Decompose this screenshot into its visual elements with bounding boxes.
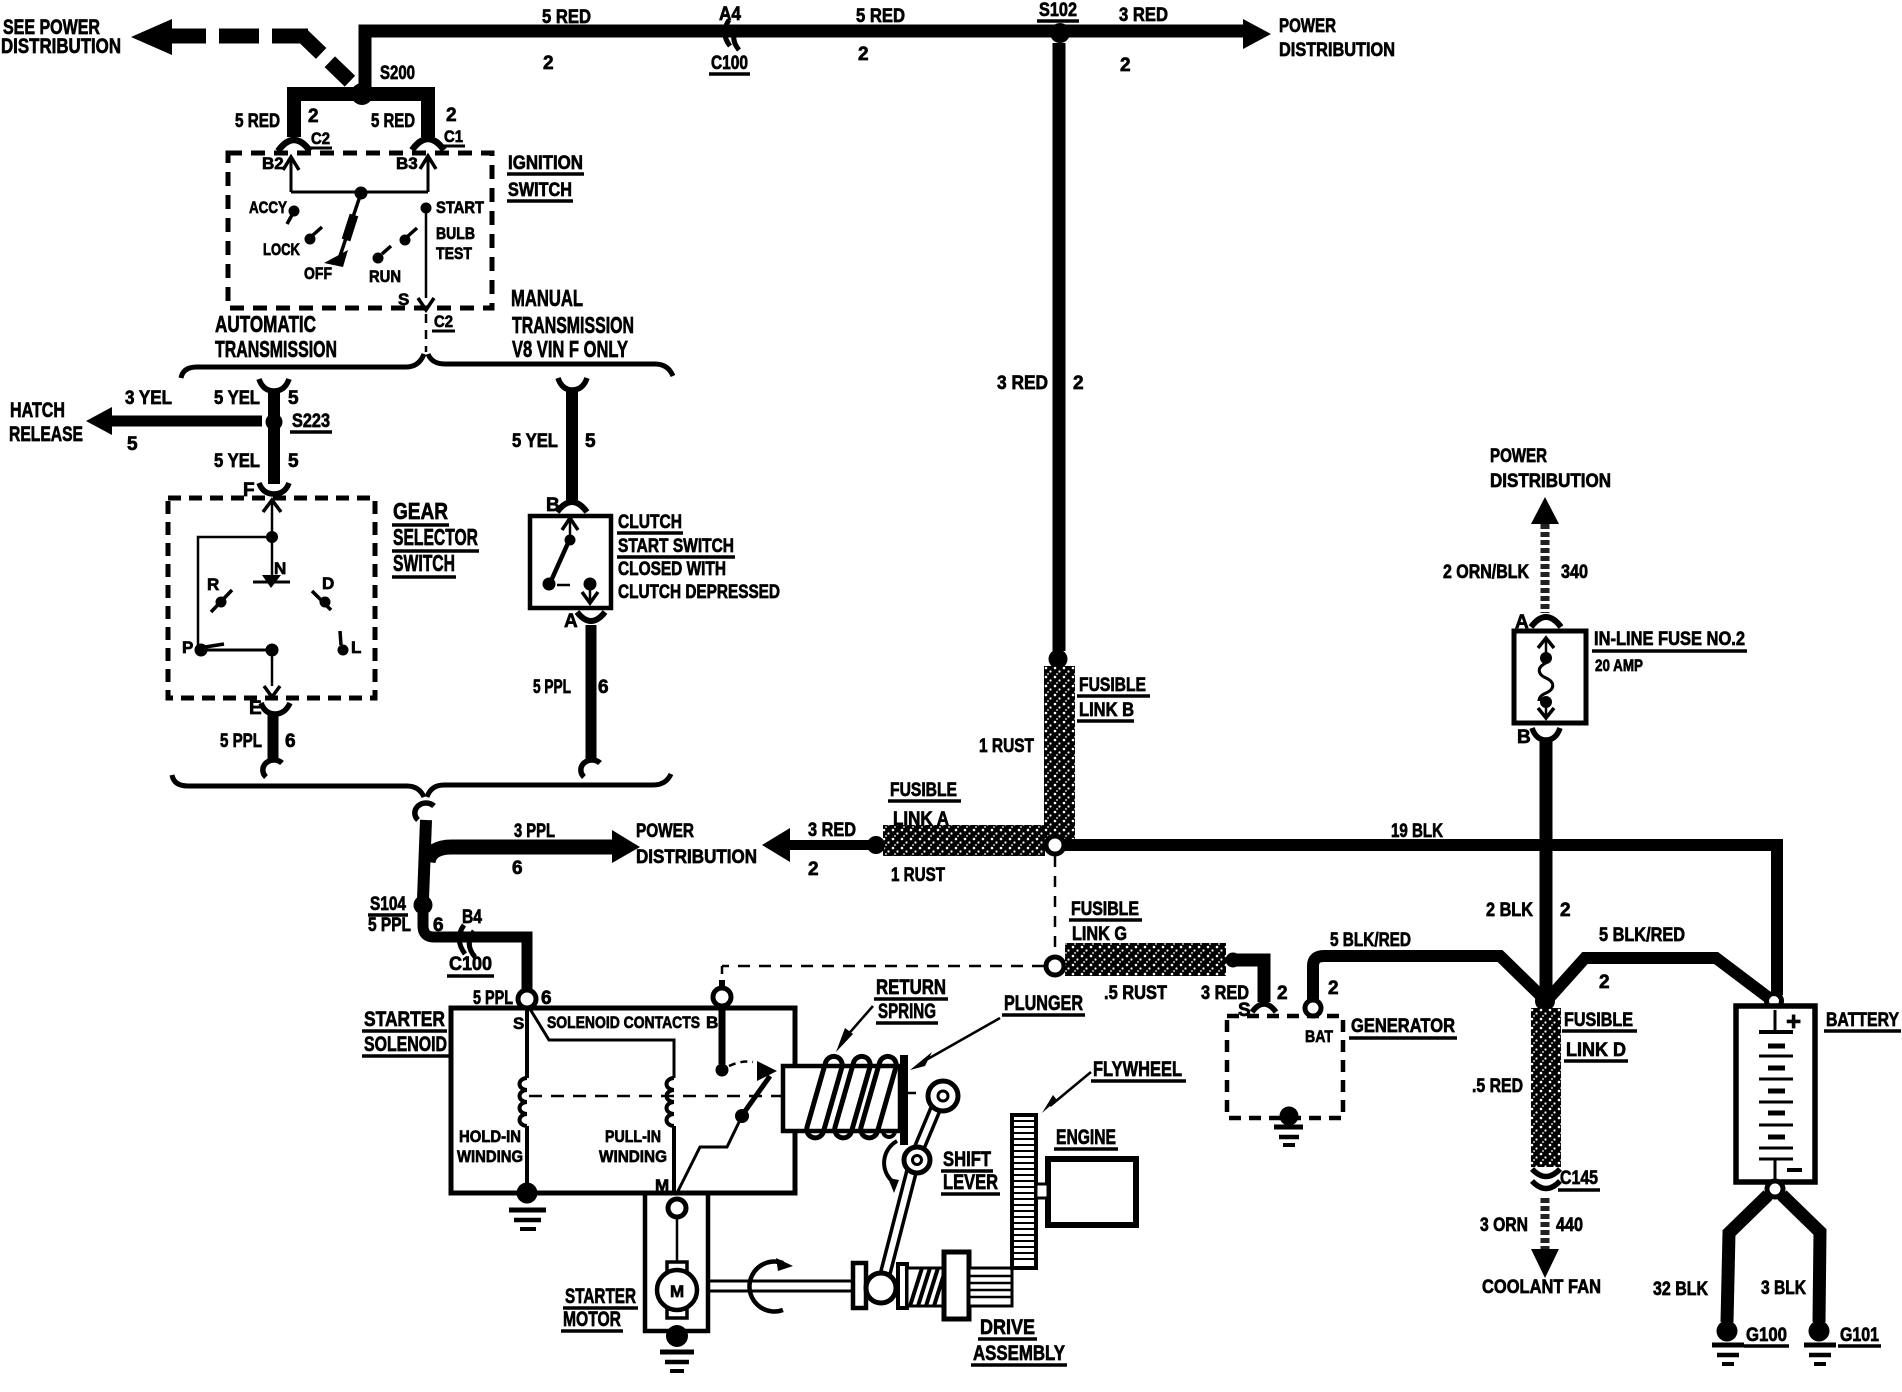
svg-text:POWER: POWER [636, 821, 694, 842]
svg-text:TEST: TEST [436, 244, 473, 263]
svg-text:19 BLK: 19 BLK [1391, 821, 1443, 842]
contact N [253, 559, 290, 588]
wire START to S [425, 208, 428, 298]
split brace left [181, 354, 424, 378]
node link G left (ring) [1046, 957, 1064, 975]
connector curl (A branch end) [581, 760, 600, 777]
plunger body [783, 1066, 900, 1131]
node S102 [1037, 0, 1079, 43]
label HATCH RELEASE [9, 399, 83, 446]
label STARTER SOLENOID [362, 1008, 449, 1056]
label POWER DISTRIBUTION (top right) [1279, 16, 1395, 61]
svg-text:2 BLK: 2 BLK [1486, 900, 1533, 921]
svg-text:TRANSMISSION: TRANSMISSION [512, 312, 634, 338]
svg-text:ACCY: ACCY [249, 198, 288, 217]
label FUSIBLE LINK A [888, 780, 961, 830]
pull-in winding coil [667, 1078, 675, 1126]
label DRIVE ASSEMBLY [971, 1316, 1067, 1365]
svg-text:G100: G100 [1746, 1325, 1787, 1346]
svg-text:1 RUST: 1 RUST [979, 736, 1034, 757]
wire to P leg [198, 537, 272, 649]
label POWER DISTRIBUTION (3 PPL) [636, 821, 757, 868]
svg-text:5: 5 [288, 451, 299, 472]
svg-text:BATTERY: BATTERY [1826, 1010, 1899, 1031]
svg-text:B: B [706, 1013, 718, 1032]
label PULL-IN WINDING [599, 1127, 667, 1166]
connector F bird [243, 480, 289, 501]
node fusible link D top [1535, 991, 1555, 1011]
svg-text:PULL-IN: PULL-IN [605, 1127, 661, 1146]
terminal B (ring) [713, 988, 731, 1006]
svg-text:CLUTCH: CLUTCH [618, 512, 682, 533]
connector A (clutch) [564, 611, 605, 632]
node link G right [1226, 953, 1241, 968]
svg-text:5 RED: 5 RED [856, 6, 905, 27]
terminal M (ring) [668, 1199, 686, 1217]
node clutch pivot [565, 535, 576, 546]
svg-text:B4: B4 [462, 907, 482, 928]
svg-text:RETURN: RETURN [876, 976, 946, 999]
svg-text:.5 RUST: .5 RUST [1104, 983, 1167, 1004]
wire 5 PPL (E drop) [268, 714, 279, 762]
contact LOCK [263, 227, 322, 259]
svg-text:D: D [322, 574, 334, 593]
svg-text:5 RED: 5 RED [542, 7, 591, 28]
svg-text:SOLENOID: SOLENOID [364, 1033, 447, 1056]
svg-text:5 YEL: 5 YEL [214, 451, 260, 472]
svg-text:RELEASE: RELEASE [9, 423, 83, 446]
wire B contact drop [719, 1006, 726, 1064]
svg-text:LINK B: LINK B [1079, 700, 1134, 721]
merge brace left [172, 775, 424, 797]
svg-text:3 YEL: 3 YEL [125, 388, 172, 409]
merge brace right [427, 774, 671, 797]
svg-text:DISTRIBUTION: DISTRIBUTION [1, 35, 121, 58]
svg-text:3 RED: 3 RED [997, 373, 1048, 394]
svg-text:C100: C100 [449, 954, 492, 975]
svg-text:LINK G: LINK G [1072, 924, 1127, 945]
drive collar [898, 1264, 907, 1308]
wire dashed arrow to power distribution (top left) [131, 19, 357, 88]
svg-text:S: S [398, 290, 409, 309]
shift lever pivot [904, 1147, 930, 1173]
terminal S (ring) [518, 990, 536, 1008]
flywheel [1012, 1115, 1036, 1268]
label GEAR SELECTOR SWITCH [392, 498, 479, 577]
wire 2 BLK (fuse B down) [1540, 740, 1553, 994]
svg-text:GENERATOR: GENERATOR [1351, 1016, 1455, 1037]
wire S104 elbow to C100 [423, 905, 527, 991]
engine shaft [1036, 1184, 1048, 1198]
label SEE POWER DISTRIBUTION [1, 16, 121, 58]
ground G101 [1804, 1321, 1881, 1365]
node link A right (ring) [1046, 836, 1064, 854]
svg-text:DISTRIBUTION: DISTRIBUTION [636, 847, 757, 868]
connector A (fuse) [1515, 612, 1561, 633]
svg-text:SOLENOID CONTACTS: SOLENOID CONTACTS [547, 1013, 700, 1032]
wire F down [271, 501, 274, 536]
svg-text:5 RED: 5 RED [235, 111, 280, 132]
switch lever to OFF [324, 193, 361, 267]
arrow to plunger [910, 1018, 1000, 1070]
svg-text:S104: S104 [370, 894, 406, 915]
svg-text:LOCK: LOCK [263, 240, 301, 259]
wire 5 YEL (manual) [566, 389, 578, 500]
svg-text:BULB: BULB [436, 224, 475, 243]
pin B3 arrow [396, 154, 436, 192]
svg-text:LEVER: LEVER [943, 1171, 998, 1194]
svg-text:B2: B2 [262, 154, 284, 173]
svg-text:5 BLK/RED: 5 BLK/RED [1330, 930, 1411, 951]
svg-text:1 RUST: 1 RUST [891, 865, 945, 886]
node gear top junction [266, 531, 278, 543]
svg-text:COOLANT FAN: COOLANT FAN [1482, 1277, 1601, 1298]
drive flange [853, 1263, 866, 1308]
label SHIFT LEVER [941, 1148, 1000, 1194]
terminal BAT (ring) [1305, 1000, 1334, 1046]
clutch start switch box [530, 516, 611, 608]
wire S200 to C2 [294, 94, 362, 137]
connector B4 C100 [447, 907, 494, 976]
svg-text:20 AMP: 20 AMP [1595, 656, 1643, 675]
drive pinion flange [944, 1252, 969, 1319]
wire dashed contact arc [729, 1062, 753, 1067]
contact R [207, 575, 232, 612]
connector S (generator) [1238, 1000, 1276, 1021]
gear selector switch box [168, 498, 375, 698]
wire dashed contact gap [557, 584, 570, 587]
svg-text:M: M [670, 1282, 684, 1301]
svg-text:5 BLK/RED: 5 BLK/RED [1599, 925, 1685, 946]
connector B (clutch) [546, 495, 587, 516]
svg-text:440: 440 [1556, 1215, 1583, 1236]
svg-text:ASSEMBLY: ASSEMBLY [973, 1342, 1065, 1365]
label IN-LINE FUSE NO.2 [1592, 629, 1747, 675]
wire top 5 RED bus [365, 19, 1271, 90]
svg-text:STARTER: STARTER [364, 1008, 445, 1031]
wire pull-in to M [672, 1126, 676, 1191]
svg-text:6: 6 [541, 988, 552, 1009]
svg-text:C100: C100 [711, 53, 748, 74]
svg-text:2: 2 [308, 106, 319, 127]
svg-text:SPRING: SPRING [878, 1000, 936, 1023]
node S200 [351, 63, 415, 105]
svg-text:B: B [546, 495, 560, 516]
fusible link D [1531, 1008, 1561, 1167]
contact ACCY [249, 198, 300, 224]
svg-text:2: 2 [446, 105, 457, 126]
terminal battery + (ring) [1767, 994, 1782, 1009]
node link A left [867, 836, 885, 854]
pin F arrow into box [263, 500, 281, 512]
svg-text:CLOSED WITH: CLOSED WITH [618, 559, 726, 580]
svg-text:5 PPL: 5 PPL [473, 988, 513, 1009]
shift lever rotation arc [884, 1141, 899, 1193]
node clutch contact left [543, 578, 556, 591]
svg-text:S102: S102 [1039, 0, 1077, 21]
wire B2-B3 bridge [291, 191, 428, 194]
svg-text:S200: S200 [380, 63, 415, 84]
svg-text:B3: B3 [396, 154, 418, 173]
label GENERATOR [1349, 1016, 1457, 1038]
wire to N [271, 537, 274, 577]
svg-text:S223: S223 [292, 411, 330, 432]
label POWER DISTRIBUTION (fuse feed) [1490, 446, 1611, 492]
svg-text:LINK A: LINK A [893, 809, 949, 830]
wire hold-in to ground [525, 1126, 529, 1186]
svg-text:M: M [655, 1176, 669, 1195]
node switch pivot [355, 187, 368, 200]
pin A arrow out of box [582, 584, 598, 603]
svg-text:E: E [249, 698, 262, 719]
svg-text:C145: C145 [1560, 1168, 1598, 1189]
starter solenoid box [451, 1008, 795, 1193]
label IGNITION SWITCH [507, 153, 584, 201]
wire S200 to C1 [362, 94, 428, 137]
svg-text:TRANSMISSION: TRANSMISSION [215, 336, 337, 362]
svg-text:AUTOMATIC: AUTOMATIC [215, 311, 316, 337]
connector curl (merge continuation) [415, 803, 434, 820]
pin E arrow [264, 686, 280, 697]
svg-text:5 PPL: 5 PPL [220, 731, 262, 752]
svg-text:2: 2 [1328, 978, 1339, 999]
contact P [182, 638, 224, 657]
svg-text:SWITCH: SWITCH [393, 550, 455, 576]
return spring coil 1 [805, 1054, 844, 1139]
drive pinion gear [969, 1268, 1012, 1306]
connector E bird [249, 698, 290, 719]
wire 5 BLK/RED (generator to link D) [1313, 956, 1541, 1001]
wire 5 BLK/RED to battery [1550, 958, 1769, 998]
svg-text:3 ORN: 3 ORN [1480, 1215, 1528, 1236]
split brace right [428, 354, 673, 376]
wire 3 BLK [1782, 1195, 1820, 1322]
terminal battery - (ring) [1767, 1181, 1783, 1197]
svg-text:HATCH: HATCH [10, 399, 65, 422]
svg-text:3 BLK: 3 BLK [1761, 1278, 1806, 1299]
wire P to E junction [201, 649, 272, 652]
solenoid contact lever [743, 1076, 770, 1114]
svg-text:2: 2 [1073, 373, 1084, 394]
node S104 [368, 894, 433, 915]
connector A4 C100 [709, 4, 750, 74]
svg-text:START SWITCH: START SWITCH [618, 536, 734, 557]
svg-text:C1: C1 [444, 127, 463, 146]
return spring coil 2 [833, 1054, 872, 1139]
svg-text:2 ORN/BLK: 2 ORN/BLK [1443, 562, 1529, 583]
svg-text:L: L [351, 638, 361, 657]
hold-in winding coil [520, 1078, 528, 1126]
pin B arrow into box [562, 518, 578, 530]
battery cells [1759, 1010, 1802, 1179]
svg-text:HOLD-IN: HOLD-IN [459, 1127, 521, 1146]
contact BULB TEST [400, 224, 476, 263]
clutch lever [551, 543, 568, 581]
svg-text:MOTOR: MOTOR [563, 1308, 621, 1331]
svg-text:3 PPL: 3 PPL [514, 821, 555, 842]
node fusible link B top [1049, 650, 1068, 669]
svg-text:ENGINE: ENGINE [1056, 1126, 1116, 1149]
svg-text:B: B [1517, 727, 1531, 748]
node contact lever lower [735, 1109, 749, 1123]
engine block [1048, 1159, 1136, 1225]
svg-text:STARTER: STARTER [565, 1285, 636, 1308]
svg-text:WINDING: WINDING [457, 1147, 523, 1166]
connector bird (manual branch top) [558, 378, 587, 390]
svg-text:5 YEL: 5 YEL [214, 388, 260, 409]
label FLYWHEEL [1042, 1058, 1186, 1113]
label STARTER MOTOR [561, 1285, 638, 1331]
wire lever to M [678, 1116, 742, 1191]
svg-text:5 YEL: 5 YEL [512, 431, 558, 452]
wire 3 RED (S102 drop) [1053, 43, 1066, 651]
connector C145 [1532, 1168, 1600, 1190]
motor M [657, 1262, 697, 1318]
return spring coil 3 [859, 1054, 898, 1139]
pin B2 arrow [262, 154, 299, 192]
contact arrowhead [757, 1061, 777, 1081]
label AUTOMATIC TRANSMISSION [215, 311, 337, 362]
svg-text:2: 2 [1560, 900, 1571, 921]
label ENGINE [1054, 1126, 1118, 1149]
connector C2 (ignition S) [432, 312, 455, 331]
connector B (fuse) [1517, 727, 1560, 748]
ground (generator) [1274, 1107, 1303, 1146]
svg-text:DISTRIBUTION: DISTRIBUTION [1490, 471, 1611, 492]
svg-text:5 RED: 5 RED [371, 111, 415, 132]
svg-text:6: 6 [285, 731, 296, 752]
svg-text:LINK D: LINK D [1566, 1040, 1626, 1061]
svg-text:SHIFT: SHIFT [943, 1148, 991, 1171]
wire B stub above ring [719, 980, 725, 988]
svg-text:R: R [207, 575, 219, 594]
contact D [312, 574, 334, 610]
svg-text:340: 340 [1561, 562, 1588, 583]
svg-text:FUSIBLE: FUSIBLE [1071, 899, 1139, 920]
svg-text:SELECTOR: SELECTOR [393, 524, 478, 550]
svg-text:3 RED: 3 RED [1119, 5, 1168, 26]
label CLUTCH START SWITCH CLOSED WITH CLUTCH DEPRESSED [617, 512, 780, 603]
plunger end plate [900, 1055, 908, 1145]
svg-text:WINDING: WINDING [599, 1147, 667, 1166]
svg-text:2: 2 [808, 859, 819, 880]
svg-text:FUSIBLE: FUSIBLE [1564, 1010, 1633, 1031]
svg-text:IN-LINE FUSE NO.2: IN-LINE FUSE NO.2 [1594, 629, 1745, 650]
svg-text:SWITCH: SWITCH [508, 180, 572, 201]
svg-text:P: P [182, 638, 193, 657]
svg-text:OFF: OFF [304, 264, 332, 283]
wire 3 YEL hatch release arrow [86, 407, 262, 435]
svg-text:.5 RED: .5 RED [1472, 1076, 1523, 1097]
svg-text:2: 2 [543, 53, 554, 74]
wire merge drop [423, 820, 426, 899]
ground (solenoid) [509, 1183, 546, 1230]
wire dashed armature centerline [529, 1095, 781, 1098]
contact START [421, 198, 485, 217]
svg-text:6: 6 [512, 858, 523, 879]
label FUSIBLE LINK B [1077, 675, 1150, 721]
shift lever upper arm [915, 1103, 938, 1158]
svg-text:MANUAL: MANUAL [511, 285, 583, 311]
svg-text:2: 2 [1120, 55, 1131, 76]
label MANUAL TRANSMISSION V8 VIN F ONLY [511, 285, 634, 362]
wire 19 BLK [1064, 845, 1777, 995]
contact RUN [369, 246, 401, 286]
svg-text:S: S [513, 1014, 524, 1033]
node B contact [716, 1064, 729, 1077]
wire 3 RED arrow to power distribution (left) [762, 828, 869, 862]
svg-text:START: START [436, 198, 485, 217]
svg-text:C2: C2 [311, 129, 330, 148]
wire E drop [271, 650, 274, 686]
label BATTERY [1824, 1010, 1901, 1031]
wire B to pivot [569, 519, 572, 538]
svg-text:FUSIBLE: FUSIBLE [1079, 675, 1146, 696]
wire dashed link A ring down [1054, 856, 1057, 955]
label RETURN SPRING [874, 976, 948, 1023]
node clutch contact right [584, 578, 597, 591]
svg-text:G101: G101 [1840, 1325, 1879, 1346]
wire M to motor [676, 1217, 679, 1264]
connector C1 [412, 127, 465, 150]
svg-text:2: 2 [1599, 972, 1610, 993]
wire 3 PPL arrow to power distribution [428, 830, 640, 863]
wire 3 RED to generator S [1233, 960, 1264, 1002]
svg-text:CLUTCH DEPRESSED: CLUTCH DEPRESSED [618, 582, 780, 603]
svg-text:FUSIBLE: FUSIBLE [890, 780, 957, 801]
contact L [338, 631, 362, 657]
wire 5 YEL upper [268, 390, 280, 484]
svg-text:V8 VIN F ONLY: V8 VIN F ONLY [512, 336, 628, 362]
in-line fuse no.2 box [1514, 631, 1586, 723]
arrow to return spring [836, 1006, 873, 1052]
battery box [1736, 1006, 1815, 1182]
wire 5 PPL (A drop) [586, 625, 597, 762]
shift lever lower arm [882, 1158, 915, 1286]
svg-text:DRIVE: DRIVE [980, 1316, 1035, 1339]
node S223 [266, 411, 333, 432]
svg-text:BAT: BAT [1305, 1027, 1334, 1046]
svg-text:5: 5 [585, 431, 596, 452]
svg-text:POWER: POWER [1279, 16, 1336, 37]
starter motor housing [645, 1193, 708, 1331]
generator box [1227, 1016, 1343, 1118]
svg-text:RUN: RUN [369, 267, 401, 286]
label FUSIBLE LINK G [1069, 899, 1142, 945]
wire 3 ORN arrow to coolant fan [1531, 1198, 1559, 1278]
label PLUNGER [1002, 992, 1085, 1015]
wire dashed B stub [721, 966, 724, 986]
svg-text:5: 5 [288, 388, 299, 409]
svg-text:5 PPL: 5 PPL [368, 915, 411, 936]
svg-text:FLYWHEEL: FLYWHEEL [1093, 1058, 1182, 1081]
wire dashed plunger link [908, 1092, 922, 1095]
svg-text:DISTRIBUTION: DISTRIBUTION [1279, 40, 1395, 61]
drive screw (hatched) [907, 1268, 944, 1306]
svg-text:32 BLK: 32 BLK [1653, 1279, 1708, 1300]
fusible link G [1065, 943, 1226, 976]
return spring bottom nub [883, 1131, 895, 1137]
svg-text:PLUNGER: PLUNGER [1004, 992, 1083, 1015]
rotation symbol [749, 1258, 793, 1312]
wire S to pull-in winding [530, 1009, 674, 1078]
pin S arrow [398, 290, 434, 310]
label FUSIBLE LINK D [1562, 1010, 1637, 1061]
label HOLD-IN WINDING [457, 1127, 523, 1166]
fuse element [1538, 638, 1554, 718]
wire dashed S drop [425, 314, 428, 352]
wire 2 ORN/BLK arrow up [1531, 497, 1559, 613]
